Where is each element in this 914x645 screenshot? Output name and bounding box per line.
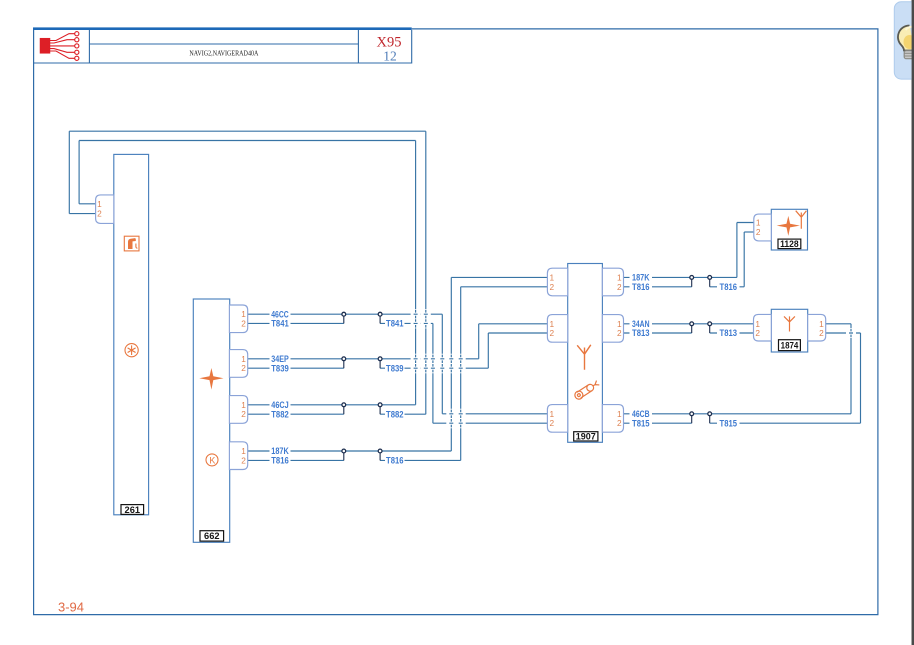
svg-text:T882: T882: [271, 409, 289, 419]
svg-text:2: 2: [549, 328, 554, 338]
wire 34AN net: 1907 R2 pin1 - 1874 pin1: [624, 323, 754, 325]
wire 46CJ net: 662/3 pin1 - 261 pin1: [79, 141, 416, 405]
svg-text:261: 261: [125, 505, 141, 515]
junction splice 34EP/T839 b: [378, 357, 382, 368]
component 1874 (aerial) box: [771, 309, 807, 352]
svg-text:NAVIG2,NAVIGERAD40A: NAVIG2,NAVIGERAD40A: [189, 51, 258, 58]
connector 1907 R3 pins 1-2: [602, 405, 623, 433]
wire T839 net: 662/2 pin2 - 1907 L2 pin2: [248, 333, 548, 368]
wire 187K net: 662/4 pin1 - 1907 L1 pin1: [248, 277, 548, 451]
component 261 (display unit) box: [114, 154, 149, 514]
svg-text:12: 12: [383, 49, 397, 64]
svg-text:662: 662: [204, 531, 220, 541]
icon in 261: clock pictogram: [125, 344, 138, 357]
svg-text:T813: T813: [720, 328, 738, 338]
svg-text:T841: T841: [386, 319, 404, 329]
icon in 261: handset pictogram: [124, 236, 139, 251]
junction splice 34EP/T839 a: [342, 357, 346, 368]
designator 1907: [574, 432, 598, 442]
component 1907 (antenna amplifier) box: [568, 264, 603, 443]
connector 1907 R2 pins 1-2: [602, 315, 623, 343]
dark strip overlay: [912, 0, 914, 645]
designator 662: [200, 531, 224, 542]
icon in 1128: small antenna: [796, 211, 807, 229]
lightbulb help button: [894, 2, 914, 79]
svg-text:K: K: [209, 455, 215, 465]
designator 1128: [778, 239, 801, 249]
svg-text:2: 2: [819, 328, 824, 338]
svg-text:2: 2: [617, 328, 622, 338]
connector 1874 R pins 1-2: [808, 314, 826, 341]
svg-text:2: 2: [617, 418, 622, 428]
wire 46CC net: 662/1 pin1 - 1907 L3 pin1: [248, 314, 548, 414]
svg-text:1907: 1907: [576, 432, 596, 442]
svg-text:2: 2: [617, 282, 622, 292]
wire T816 net: 662/4 pin2 - 1907 L1 pin2: [248, 287, 548, 461]
connector 662/2 pins 1-2: [229, 350, 247, 378]
icon in 1907: antenna: [577, 345, 591, 370]
connector 261 pins 1-2: [96, 195, 114, 224]
wire T813 net: 1907 R2 pin2 - 1874 pin2: [624, 332, 754, 334]
icon in 1907: plug pictogram: [573, 379, 600, 400]
svg-text:T839: T839: [386, 363, 404, 373]
connector 1907 R1 pins 1-2: [602, 268, 623, 296]
icon in 662: 4-point star: [199, 368, 223, 390]
component 1128 (GPS aerial) box: [771, 209, 807, 250]
wire T841 net: 662/1 pin2 - 1907 L3 pin2: [248, 323, 548, 423]
junction splice 187K/T816 right a: [690, 276, 694, 287]
connector 662/4 pins 1-2: [229, 442, 247, 470]
component 662 (radio) box: [193, 299, 229, 542]
svg-text:T816: T816: [386, 456, 404, 466]
wire T815 net: 1907 R3 pin2 - 1874 right pin2: [624, 333, 861, 423]
svg-text:1874: 1874: [781, 340, 799, 350]
svg-text:2: 2: [241, 363, 246, 373]
junction splice 46CC/T841 b: [378, 312, 382, 323]
junction splice 46CB/T815 a: [690, 412, 694, 423]
title block: [34, 30, 412, 63]
svg-text:2: 2: [97, 209, 102, 219]
sidebar dark scrollbar strip: [912, 0, 914, 645]
connector 1874 L pins 1-2: [754, 314, 772, 341]
connector 1907 L2 pins 1-2: [547, 315, 567, 343]
wire 34EP net: 662/2 pin1 - 1907 L2 pin1: [248, 324, 548, 359]
connector 1907 L3 pins 1-2: [547, 405, 567, 433]
junction splice 34AN/T813 b: [708, 322, 712, 333]
svg-text:2: 2: [241, 455, 246, 465]
svg-text:3-94: 3-94: [58, 600, 84, 615]
svg-text:T815: T815: [720, 418, 738, 428]
svg-text:T882: T882: [386, 409, 404, 419]
junction splice 46CJ/T882 a: [342, 403, 346, 414]
icon in 662: K in circle: [206, 454, 218, 466]
svg-text:T839: T839: [271, 363, 289, 373]
svg-text:T816: T816: [632, 282, 650, 292]
junction splice 187K/T816 right b: [708, 276, 712, 287]
svg-text:2: 2: [241, 409, 246, 419]
junction splice 46CJ/T882 b: [378, 403, 382, 414]
wire T882 net: 662/3 pin2 - 261 pin2: [69, 131, 426, 414]
wire T816 net: 1907 R1 pin2 - 1128 pin2: [624, 232, 754, 287]
wire 187K net: 1907 R1 pin1 - 1128 pin1: [624, 223, 754, 278]
designator 261: [121, 505, 144, 515]
connector 1907 L1 pins 1-2: [547, 268, 567, 296]
icon in 1874: antenna: [784, 316, 795, 331]
junction splice 46CB/T815 b: [708, 412, 712, 423]
junction splice 46CC/T841 a: [342, 312, 346, 323]
svg-text:1128: 1128: [780, 239, 799, 249]
svg-text:T815: T815: [632, 418, 650, 428]
svg-text:1: 1: [97, 199, 102, 209]
junction splice 34AN/T813 a: [690, 322, 694, 333]
connector 662/1 pins 1-2: [229, 305, 247, 333]
svg-text:T816: T816: [720, 282, 738, 292]
icon in 1128: 4-point star: [777, 216, 800, 236]
svg-text:2: 2: [755, 328, 760, 338]
svg-text:T813: T813: [632, 328, 650, 338]
svg-text:2: 2: [549, 418, 554, 428]
connector 1128 pins 1-2: [754, 214, 772, 241]
harness icon (red): [40, 32, 79, 61]
svg-text:2: 2: [549, 282, 554, 292]
wire 46CB net: 1907 R3 pin1 - 1874 right pin1: [624, 324, 852, 414]
designator 1874: [779, 340, 801, 351]
junction splice 187K/T816 a: [342, 449, 346, 460]
connector 662/3 pins 1-2: [229, 396, 247, 424]
svg-text:1: 1: [756, 218, 761, 228]
junction splice 187K/T816 b: [378, 449, 382, 460]
svg-text:T841: T841: [271, 319, 289, 329]
svg-text:2: 2: [756, 227, 761, 237]
svg-text:T816: T816: [271, 456, 289, 466]
svg-text:2: 2: [241, 318, 246, 328]
